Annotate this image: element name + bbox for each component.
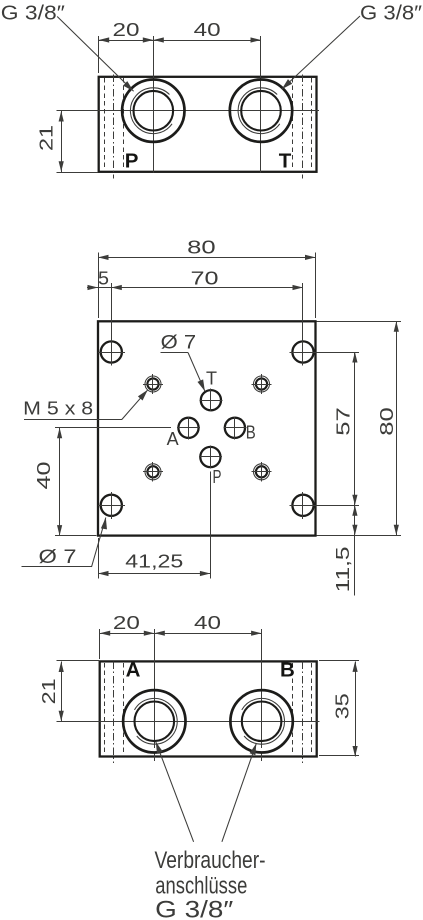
extension line right edge up (dim 80) [315, 253, 317, 318]
centerline right mounting hole [302, 75, 304, 179]
dim 21 vertical line [61, 111, 63, 172]
extension line bottom-right hole center to dims 57/11.5 [317, 505, 359, 507]
dim 35: extensions right [319, 660, 359, 662]
dim 11,5 vertical line [354, 505, 356, 595]
M5 hole upper-right [256, 378, 267, 389]
dim 40 left vertical line [59, 428, 61, 536]
svg-text:5: 5 [98, 268, 109, 288]
hidden bore lines left mounting hole [104, 78, 106, 171]
svg-text:80: 80 [377, 407, 397, 436]
port P thread arc [130, 88, 172, 134]
svg-text:70: 70 [191, 268, 219, 288]
M5 hole lower-right [256, 466, 267, 477]
svg-text:T: T [206, 369, 217, 389]
M5 hole lower-left [147, 466, 158, 477]
corner hole bottom-right [292, 495, 313, 516]
svg-text:Verbraucher-: Verbraucher- [155, 847, 266, 874]
svg-text:20: 20 [113, 20, 140, 40]
extension line left edge for dim 20 [99, 629, 101, 659]
extension line bottom edge for dim 21 [57, 172, 98, 174]
dim 21: extension top edge left [57, 660, 100, 662]
svg-text:41,25: 41,25 [125, 552, 183, 572]
dim 40 left: extension top (A centerline) [55, 427, 171, 429]
svg-text:P: P [125, 150, 139, 173]
dimension line 5/70 [87, 287, 303, 289]
top view plate outline [99, 77, 317, 172]
port hole P [200, 447, 220, 467]
svg-text:Ø 7: Ø 7 [161, 333, 197, 354]
svg-text:21: 21 [39, 678, 59, 704]
svg-text:P: P [213, 467, 222, 487]
arrows dim 21 [59, 111, 64, 122]
bottom view plate outline [100, 661, 317, 756]
svg-text:Ø 7: Ø 7 [39, 547, 77, 568]
dim 41,25: extension left edge down [98, 538, 100, 579]
vertical centerline port T (extension for dim 40) [260, 36, 262, 173]
arrows dim 40 [153, 37, 164, 42]
hidden bore lines right mounting hole [292, 663, 294, 755]
port T thread arc [238, 88, 280, 134]
horizontal centerline through ports A and B [57, 721, 320, 723]
port T outer circle [230, 80, 292, 142]
dim 35 vertical line [355, 661, 357, 756]
hidden bore lines left mounting hole [104, 663, 106, 755]
centerline left mounting hole [113, 662, 115, 764]
svg-text:40: 40 [194, 20, 221, 40]
svg-text:G 3/8″: G 3/8″ [155, 896, 234, 920]
corner hole bottom-left [101, 495, 122, 516]
svg-text:G 3/8″: G 3/8″ [360, 2, 422, 24]
dim 57 vertical line [354, 352, 356, 505]
leader from port B to text [222, 743, 256, 841]
port P outer circle [122, 80, 184, 142]
vertical centerline port A [154, 629, 156, 748]
svg-text:80: 80 [187, 238, 216, 258]
port P inner circle [134, 91, 174, 131]
M5 hole upper-left [147, 378, 158, 389]
svg-text:B: B [280, 659, 295, 682]
dim 40 left: extension bottom [55, 535, 97, 537]
dimension line 80 top [98, 257, 316, 259]
vertical centerline port P (extension for dim 20/40) [153, 36, 155, 173]
svg-text:57: 57 [333, 407, 353, 436]
dim 41,25 line [98, 573, 210, 575]
dim 80 right: extensions [317, 321, 401, 323]
vertical centerline port B [261, 629, 263, 748]
svg-text:T: T [279, 150, 292, 173]
extension line left edge up (dims 80 / 5) [98, 253, 100, 318]
svg-text:A: A [167, 429, 179, 449]
port A outer circle [123, 690, 185, 752]
port hole A [178, 418, 198, 438]
centerline left mounting hole [113, 75, 115, 179]
leader G3/8 to port T [282, 16, 360, 89]
svg-text:M 5 x 8: M 5 x 8 [23, 398, 93, 418]
port B outer circle [230, 690, 292, 752]
dim 80 right vertical line [396, 321, 398, 535]
dimension line 20/40 bottom view [100, 633, 262, 635]
centerline right mounting hole [302, 662, 304, 764]
corner hole top-right [292, 341, 313, 362]
svg-text:40: 40 [194, 613, 221, 633]
svg-text:20: 20 [113, 613, 140, 633]
svg-text:35: 35 [333, 693, 353, 719]
port B inner circle [242, 702, 282, 742]
middle view square plate outline [98, 321, 316, 535]
port A inner circle [135, 702, 175, 742]
extension line left edge for dim 20 [98, 36, 100, 73]
dim 57: extension top hole center [317, 352, 359, 354]
port T inner circle [241, 91, 281, 131]
arrows dim 20 [99, 37, 110, 42]
svg-text:21: 21 [36, 125, 56, 151]
port A thread arc [134, 698, 177, 744]
port hole B [225, 418, 245, 438]
leader from port A to text [156, 742, 194, 842]
svg-text:40: 40 [34, 462, 54, 490]
port B thread arc [242, 698, 285, 744]
port hole T [201, 390, 221, 410]
svg-text:11,5: 11,5 [333, 546, 353, 592]
leader G3/8 to port P [57, 17, 133, 92]
corner hole top-left [101, 341, 122, 362]
svg-text:A: A [126, 659, 141, 682]
svg-text:B: B [246, 422, 256, 442]
hidden bore lines right mounting hole [292, 78, 294, 171]
dim 21 vertical line [61, 662, 63, 722]
dimension line 20/40 [99, 40, 261, 42]
dim 41,25: extension P centerline down [210, 472, 212, 579]
svg-text:G 3/8″: G 3/8″ [1, 2, 65, 24]
horizontal centerline through ports P and T [57, 110, 320, 112]
